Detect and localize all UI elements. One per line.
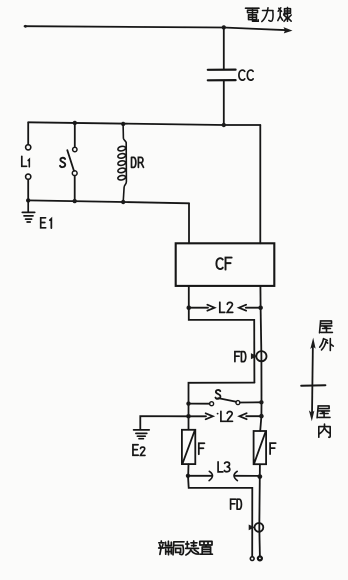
- terminal: S upper contact: [73, 147, 77, 151]
- fuse F2: [254, 431, 267, 464]
- 電: [246, 8, 260, 21]
- arrow L3 right-pointing (hooked): [190, 475, 211, 477]
- node: L2 row2 right: [259, 414, 264, 419]
- boundary marker: 屋外/屋内 arrow: [311, 343, 314, 415]
- label 屋外: [320, 321, 334, 351]
- 線: [278, 7, 291, 21]
- wire: L1 upper lead: [27, 122, 29, 144]
- terminal: S2 right contact: [236, 401, 240, 405]
- 局: [173, 542, 184, 555]
- protector FD2: [255, 523, 264, 532]
- wire: F1 to L3 row: [187, 464, 189, 476]
- label F2: [270, 443, 276, 454]
- switch S2 blade: [218, 398, 236, 402]
- wire: F2 to L3 row: [259, 464, 261, 476]
- 屋: [320, 321, 333, 333]
- arrow L2 row1 left-pointing: [239, 305, 246, 311]
- 装: [186, 541, 199, 555]
- node: top bus - switch S: [73, 121, 77, 125]
- 端: [159, 541, 173, 555]
- terminal: L1 lower: [26, 174, 31, 179]
- wire: top bus: [28, 122, 260, 125]
- boundary line tick: [301, 384, 325, 387]
- terminal: bottom right: [258, 556, 262, 560]
- wire: right conductor to terminal: [258, 477, 261, 557]
- label 屋内: [317, 406, 330, 437]
- label S2: [215, 390, 220, 399]
- wire: left conductor jog right: [189, 308, 255, 383]
- protector FD1: [256, 351, 266, 361]
- label L2 (row1): [220, 302, 233, 312]
- label L2 (row2): [217, 413, 219, 415]
- capacitor CC: [208, 70, 236, 81]
- ground E2: [134, 430, 150, 439]
- node: top bus - relay DR: [121, 122, 125, 126]
- wire: bus right drop to CF: [259, 125, 261, 243]
- node: power-line tap junction: [222, 25, 226, 29]
- arrow L3 left-pointing (hooked): [234, 471, 237, 480]
- arrow L2 row2 right-pointing: [191, 415, 206, 417]
- label E2: [133, 445, 145, 456]
- node: L3 row right: [257, 474, 262, 479]
- wire: CC to top bus: [223, 80, 225, 125]
- arrow L2 row1 right-pointing: [191, 307, 208, 309]
- arrow L2 row2 left-pointing: [239, 413, 246, 419]
- fuse F1: [182, 430, 195, 464]
- wire: bottom bus: [28, 200, 189, 203]
- wire: bottom jog right: [188, 476, 252, 557]
- label FD2: [231, 499, 242, 509]
- node: S2 row right: [259, 400, 263, 404]
- node: bottom bus - DR: [121, 200, 125, 204]
- wire: CF left output: [188, 286, 190, 308]
- terminal: L1 upper: [26, 145, 31, 150]
- ground E1: [22, 200, 34, 222]
- label FD1: [235, 352, 246, 362]
- wire: S2 right lead: [240, 401, 262, 403]
- block CF: [176, 243, 275, 286]
- label S: [60, 158, 65, 167]
- label 電力線: [246, 7, 292, 21]
- node: bottom bus - L1/E1: [26, 198, 30, 202]
- label L3: [218, 462, 230, 472]
- 内: [319, 424, 330, 437]
- label E1: [41, 218, 52, 228]
- node: L2 row1 left: [187, 305, 192, 310]
- terminal: S2 left contact: [210, 402, 214, 406]
- node: L2 row2 left: [186, 414, 191, 419]
- wire: S upper lead: [74, 123, 76, 146]
- label F1: [199, 443, 205, 454]
- node: L3 row left: [186, 474, 190, 478]
- terminal: bottom left: [250, 557, 254, 561]
- wire: S lower lead: [74, 176, 76, 201]
- node: S2 row left: [186, 401, 190, 405]
- label CF: [216, 258, 231, 270]
- node: bus-CC junction: [222, 123, 226, 127]
- wire: tap to capacitor CC: [223, 27, 225, 69]
- 置: [200, 541, 213, 554]
- 力: [262, 8, 273, 22]
- node: L2 row1 right: [258, 305, 263, 310]
- wire: right conductor (CF to fuse): [260, 308, 261, 431]
- wire: L1 lower lead: [27, 179, 29, 200]
- label DR: [132, 157, 144, 167]
- wire: jog back left: [189, 383, 255, 430]
- wire: S2 left lead: [189, 403, 210, 405]
- switch S blade: [67, 150, 74, 171]
- 外: [320, 339, 334, 351]
- label L1: [22, 156, 30, 167]
- wire: CF right output: [259, 286, 261, 308]
- 屋: [317, 406, 330, 418]
- label 端局装置: [159, 541, 213, 555]
- node: bottom bus - S: [73, 199, 77, 203]
- wire: bottom bus drop to CF: [188, 203, 190, 243]
- wire: E2 branch: [140, 416, 188, 429]
- terminal: S lower contact: [72, 171, 77, 176]
- arrowhead: power line end: [284, 27, 293, 33]
- relay coil DR: [117, 124, 126, 202]
- label CC: [239, 70, 253, 80]
- wire: power line: [25, 26, 288, 30]
